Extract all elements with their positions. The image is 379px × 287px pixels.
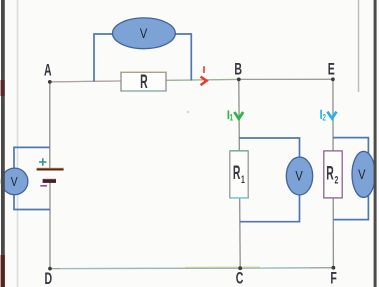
svg-text:2: 2: [322, 112, 325, 122]
svg-text:B: B: [234, 59, 242, 78]
voltmeter V1 ellipse (across R): [112, 18, 175, 49]
wire A-B-E (top horizontal): [50, 79, 333, 82]
wire E down to F: [332, 79, 335, 267]
wire tint R to B (greenish): [167, 79, 238, 82]
node B: [237, 78, 241, 82]
svg-text:F: F: [330, 268, 337, 287]
svg-text:A: A: [44, 60, 52, 79]
svg-text:2: 2: [335, 174, 339, 186]
wire tint C-F (cyan): [243, 267, 310, 269]
smudge mark: [187, 111, 190, 114]
voltmeter V1 bracket wire (across R): [94, 34, 191, 82]
voltmeter V4 bracket wire (across R2): [333, 138, 368, 220]
svg-text:V: V: [295, 168, 303, 183]
current arrow I2 (cyan): [320, 110, 322, 119]
current arrow I (red): [203, 66, 205, 73]
battery long plate: [37, 167, 64, 169]
wire battery to D: [49, 182, 51, 269]
node A: [48, 80, 52, 84]
node F: [332, 266, 336, 270]
svg-text:V: V: [140, 26, 148, 41]
svg-text:1: 1: [229, 112, 233, 122]
wire B down to C: [239, 79, 240, 268]
svg-text:V: V: [11, 176, 18, 189]
wire tint near C (yellow): [185, 266, 260, 268]
svg-text:D: D: [44, 269, 52, 287]
svg-text:1: 1: [241, 174, 245, 186]
wire A down to battery plate: [49, 82, 51, 169]
left page border bar: [1, 0, 5, 287]
svg-text:R: R: [140, 72, 148, 93]
resistor R1: [230, 151, 248, 198]
svg-text:V: V: [358, 167, 366, 182]
node D: [48, 267, 52, 271]
battery short plate: [43, 180, 56, 183]
battery minus sign: [40, 185, 47, 187]
resistor R: [121, 72, 166, 91]
right page border bar: [374, 0, 377, 287]
voltmeter V3 ellipse (across R1): [286, 157, 312, 195]
svg-text:C: C: [236, 268, 244, 287]
svg-text:R: R: [326, 163, 334, 184]
node E: [331, 77, 335, 81]
voltmeter V2 bracket wire (across battery): [14, 147, 50, 209]
battery plus sign: [39, 158, 47, 165]
svg-text:R: R: [233, 163, 241, 184]
wire tint D-C (cyan): [60, 267, 238, 269]
wire tint A to R (pinkish): [50, 80, 120, 83]
voltmeter V4 ellipse (across R2): [352, 151, 375, 197]
node C: [238, 266, 242, 270]
right inner grey line: [358, 0, 360, 92]
wire D-C-F (bottom horizontal): [50, 267, 333, 270]
current arrow I1 (green): [227, 110, 229, 119]
voltmeter V3 bracket wire (across R1): [239, 138, 300, 222]
voltmeter V2 circle (battery): [1, 168, 28, 195]
resistor R2: [324, 151, 342, 198]
svg-text:E: E: [328, 59, 335, 78]
page crease line: [17, 0, 19, 287]
